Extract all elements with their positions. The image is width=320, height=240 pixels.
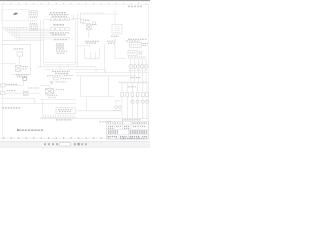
sheet right border [148,5,150,140]
connector TB4 lower block [30,25,38,30]
terminal TB2 left stub box [1,91,5,94]
comb header line [2,27,29,29]
contact symbol S2 [50,81,53,84]
terminal comb under logo box [3,28,27,30]
bus with taps top middle [80,13,118,15]
relay K2 coil box [130,42,142,47]
wire risers into connector cluster [50,29,54,32]
indicator circles row 2 [131,100,149,103]
ticked bus right [118,82,149,84]
title block bottom row text [108,137,148,139]
relay K2 coil inner marks [131,44,140,46]
fuse row F2-F7 boxes [121,92,149,96]
wire vertical left of enclosure [40,20,42,67]
diode CR2 crossed box [23,91,28,95]
relay K2 label text top right [126,39,147,41]
enclosure box U1 assembly [44,20,76,65]
connector TB3 upper block [30,11,38,17]
wire RV1 drop [22,80,24,85]
wire staircase bundle from left terminals [3,28,74,41]
connector P1 bottom label [56,119,72,121]
wire left stub to CR1 [1,63,16,65]
capacitor C1 box [53,77,58,80]
lamp DS3 circle [137,65,141,69]
relay K2 side label [143,44,149,46]
title block row lines [107,125,149,135]
wire TB1 to RV1 [5,85,23,87]
viewer toolbar strip [0,142,150,148]
relay K1 contact boxes [56,44,63,50]
connector TB3 wire hatches [31,20,37,22]
wire vertical right column [115,10,126,59]
ghost logo box top-left [2,9,29,20]
wire riser bus A to C [60,65,106,73]
wire from bus to fuse F1 [72,14,81,20]
resistor R1 box [17,52,22,56]
connector P1 base line [41,117,77,119]
wire CR2 onward [28,92,40,94]
wire below breaker CB1 [88,30,90,38]
wire R1 to CR1 [19,56,21,65]
fuse row feed wires [122,83,147,93]
contact S2 label [56,81,66,83]
lamp row label ticks [129,70,147,72]
bus horizontal D [76,75,136,77]
sheet top border line [0,3,150,5]
title block label above [122,119,141,121]
wire fuse F1 to breaker CB1 [82,22,91,25]
fuse row drop wires to bottom bus [122,97,147,119]
bus label text above [128,78,141,87]
terminal TB1 label [6,83,17,85]
meter M1 cluster left of lamps [114,101,121,105]
toolbar zoom icon 3 [81,143,83,145]
transformer T1 winding marks [114,27,120,33]
lamp branch header text [128,56,146,58]
figure caption text [18,129,43,131]
diode CR1 crossed box [15,65,21,71]
sheet top border zone ticks [0,3,150,5]
lamp DS4 circle [140,65,144,69]
ticked bus right tap marks [119,81,148,83]
meter M1 circles [115,106,122,109]
wire horizontal below T2 [40,98,76,100]
window top edge bar [0,0,150,1]
title block outer frame [107,121,149,139]
connector P1 bottom box [56,108,75,114]
toolbar zoom icon 1 [74,143,76,145]
toolbar zoom icon 2 [78,143,80,146]
meter M1 label [113,110,121,112]
connector P1 inner text [58,110,73,112]
title block drawing title text dense [108,131,147,133]
fuse F1 box [80,20,83,23]
wire lower bus F long [1,102,76,104]
terminal TB1 left stub box [1,84,5,87]
connector J2 label text [49,13,69,17]
wire into T2 [40,86,50,89]
bus horizontal A [38,66,96,68]
title block column lines [115,121,139,139]
fuse F1 label [85,19,90,21]
transformer T2 sub text [47,96,58,98]
toolbar nav icon 2 [48,143,50,145]
title block row2 cell texts [108,126,146,128]
switch S1 small box [93,22,96,25]
wire long vertical x104 [104,44,106,73]
relay K3 inner text [130,52,137,54]
wire center horizontal E [44,62,77,64]
logo smudge [13,13,17,15]
caption lead-in mark [17,129,19,131]
title block LED label left [100,121,113,123]
wire stub T2 top [62,74,64,77]
connector P1 pin comb [43,115,75,117]
wire pair right of enclosure [74,14,78,67]
sheet bottom border line [0,137,150,139]
toolbar nav icon 3 [52,143,54,145]
terminal TB2 label [7,90,16,92]
wire CR1 down to node [11,71,31,74]
wire left bus corners [2,40,31,74]
wire drops group middle [76,46,100,59]
varistor RV1 dark box [23,77,26,80]
note text bottom left [2,107,20,109]
toolbar top border [0,141,150,143]
bus horizontal C [76,72,149,74]
transformer T2 label [56,89,65,91]
connector J2 pin boxes row 1 [50,18,69,21]
toolbar nav icon 1 [44,143,46,145]
lamp DS5 circle [144,65,148,69]
bus horizontal B [44,69,106,71]
connector TB4 inner text [31,26,37,28]
resistor R1 label [14,48,24,50]
sheet bottom zone ticks [0,137,150,139]
wire riser to bottom connector [42,103,44,114]
power supply PS1 label text [16,75,29,77]
toolbar nav icon 4 [56,143,58,145]
breaker CB1 label text [85,41,99,43]
toolbar bottom border [0,146,150,148]
label LED text [54,24,65,26]
connector TB3 mid label [30,18,37,24]
sheet corner text top-right [128,5,142,7]
relay K3 box [128,50,137,55]
relay K3 side label [139,52,144,54]
diode CR1 label [23,67,29,69]
transformer T1 box [112,25,122,35]
switch S1 label [92,24,97,26]
long bottom rail wire [41,117,149,119]
wire TB2 to CR2 [5,92,23,94]
bus tap ticks [81,12,105,14]
transformer T1 label [107,36,119,43]
breaker CB1 crossed box [87,25,92,30]
net text right of CR2 [29,87,40,89]
sheet left border [2,5,4,140]
relay K1 label text [56,51,67,53]
lamp DS1 circle [129,65,133,69]
net label text under enclosure [52,72,70,74]
connector J3 pin boxes row 2 [50,28,69,31]
title block top right text [132,122,147,124]
connector TB3 inner text [31,12,37,14]
toolbar zoom icon 4 [85,143,87,145]
toolbar page input box [60,143,71,147]
capacitor C1 label [60,78,71,80]
lamp branch wires verticals [131,59,146,83]
wire stub left of T2 [41,99,43,103]
transformer T2 crossed box [46,89,54,94]
lamp branch header wire [128,58,146,60]
lamp DS2 circle [133,65,137,69]
wire mid horizontals lower middle [77,76,115,111]
title block zone number row text [108,122,124,124]
wire lower bus E [1,99,35,104]
net label text row mid [47,74,73,76]
connector J3 label text [50,33,69,40]
